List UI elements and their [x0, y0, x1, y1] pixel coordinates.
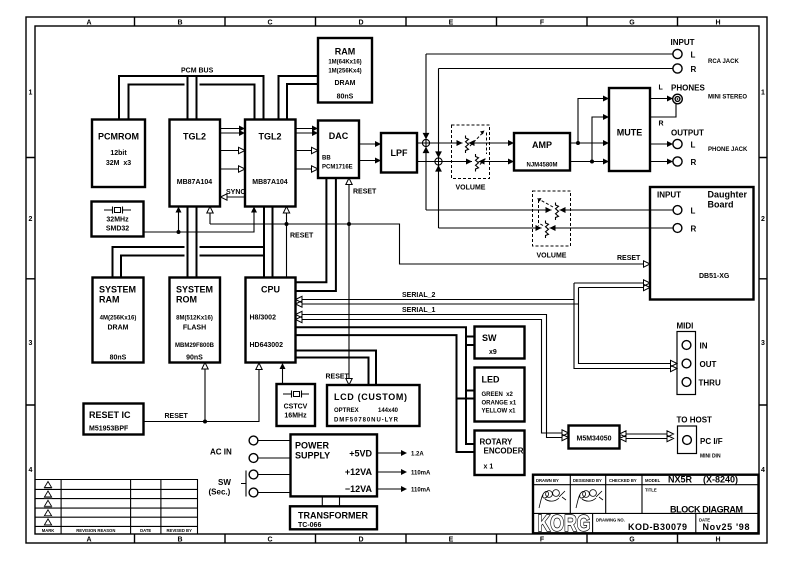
wire CPU to LCD [296, 351, 377, 386]
svg-text:R: R [659, 121, 664, 128]
svg-text:8M(512Kx16): 8M(512Kx16) [176, 316, 213, 322]
svg-text:L: L [659, 85, 664, 92]
svg-text:C: C [267, 537, 272, 544]
svg-text:DRAWING NO.: DRAWING NO. [596, 518, 625, 523]
Daughter Board DB51-XG [650, 187, 754, 300]
svg-text:TGL2: TGL2 [258, 132, 281, 142]
revision table [35, 480, 198, 535]
svg-text:C: C [267, 20, 272, 27]
reset net TGL2/DAC/LCD/DB [207, 178, 650, 385]
svg-text:RESET: RESET [326, 374, 350, 381]
svg-text:RESET: RESET [353, 189, 377, 196]
svg-text:FLASH: FLASH [183, 325, 206, 332]
svg-text:PCM1716E: PCM1716E [322, 165, 353, 171]
svg-text:+12VA: +12VA [345, 467, 373, 477]
svg-text:SYSTEM: SYSTEM [99, 285, 136, 295]
pot 2a [537, 198, 559, 226]
svg-text:ORANGE x1: ORANGE x1 [482, 401, 517, 407]
svg-text:90nS: 90nS [186, 354, 203, 361]
svg-text:YELLOW x1: YELLOW x1 [482, 409, 517, 415]
M5M34050 to PC I/F double arrow [620, 431, 674, 442]
svg-text:Board: Board [708, 200, 734, 210]
svg-text:H: H [715, 537, 720, 544]
title block [533, 474, 759, 536]
svg-text:2: 2 [761, 216, 765, 223]
svg-text:HD643002: HD643002 [250, 342, 284, 349]
svg-text:VOLUME: VOLUME [456, 185, 486, 192]
svg-text:R: R [691, 65, 697, 74]
svg-text:D: D [358, 537, 363, 544]
LCD (CUSTOM) [327, 385, 420, 426]
svg-text:DMF50780NU-LYR: DMF50780NU-LYR [334, 418, 399, 424]
svg-text:IN: IN [700, 342, 708, 351]
svg-text:M51953BPF: M51953BPF [89, 426, 129, 433]
TGL2#1 to TGL2#2 arrows [221, 126, 246, 173]
svg-text:DAC: DAC [329, 131, 349, 141]
svg-text:OUT: OUT [700, 360, 717, 369]
svg-text:MODEL: MODEL [645, 478, 661, 483]
svg-text:RAM: RAM [99, 295, 120, 305]
svg-text:DATE: DATE [140, 528, 151, 533]
pot 2b [539, 221, 549, 239]
svg-text:A: A [86, 537, 91, 544]
svg-text:MARK: MARK [42, 528, 55, 533]
LPF [381, 133, 417, 173]
power supply outputs [377, 450, 431, 494]
signature drawn by [539, 490, 603, 508]
svg-text:SERIAL_2: SERIAL_2 [402, 292, 436, 299]
PC I/F connector [677, 416, 723, 460]
svg-text:4: 4 [29, 467, 33, 474]
svg-text:DESIGNED BY: DESIGNED BY [573, 478, 602, 483]
svg-text:TITLE: TITLE [645, 488, 657, 493]
svg-text:(X-8240): (X-8240) [703, 474, 738, 484]
SYSTEM ROM [170, 278, 221, 363]
svg-text:GREEN x2: GREEN x2 [482, 392, 514, 398]
svg-text:NJM4580M: NJM4580M [526, 163, 557, 169]
wire TGL2#2 to CPU verticals [264, 207, 273, 278]
input RCA wires to nodes [426, 54, 673, 69]
wire CPU to DAC serial data [296, 178, 336, 291]
summing node L [422, 54, 429, 210]
signature designed by [576, 491, 585, 508]
SYNC back arrow [221, 189, 246, 200]
svg-text:(Sec.): (Sec.) [209, 488, 231, 497]
svg-text:B: B [177, 537, 182, 544]
svg-text:REVISED BY: REVISED BY [167, 528, 193, 533]
svg-text:POWER: POWER [295, 441, 330, 451]
svg-text:DRAM: DRAM [335, 80, 356, 87]
svg-text:CSTCV: CSTCV [284, 404, 308, 411]
MUTE to jacks [650, 96, 676, 165]
svg-text:PHONE JACK: PHONE JACK [708, 147, 748, 153]
svg-text:LED: LED [482, 375, 501, 385]
svg-text:E: E [449, 20, 454, 27]
svg-text:RESET IC: RESET IC [89, 410, 131, 420]
svg-text:B: B [177, 20, 182, 27]
svg-text:AMP: AMP [532, 140, 552, 150]
svg-text:12bit: 12bit [110, 150, 127, 157]
DAC to LPF arrows [359, 141, 381, 164]
KORG logo [538, 510, 591, 536]
svg-text:32M x3: 32M x3 [106, 160, 131, 167]
svg-text:L: L [691, 141, 696, 150]
svg-text:CHECKED BY: CHECKED BY [609, 478, 637, 483]
svg-text:SMD32: SMD32 [106, 226, 129, 233]
svg-text:x 1: x 1 [484, 464, 494, 471]
svg-text:PCM BUS: PCM BUS [181, 68, 214, 75]
svg-text:PCMROM: PCMROM [98, 132, 139, 142]
pot 1b [476, 154, 487, 172]
svg-text:ROTARY: ROTARY [480, 438, 514, 447]
svg-text:SW: SW [218, 478, 231, 487]
svg-text:−12VA: −12VA [345, 484, 373, 494]
POWER SUPPLY [291, 434, 378, 496]
svg-text:SYSTEM: SYSTEM [176, 285, 213, 295]
svg-text:SERIAL_1: SERIAL_1 [402, 307, 436, 314]
svg-text:DRAM: DRAM [108, 325, 129, 332]
svg-text:MUTE: MUTE [617, 128, 643, 138]
svg-text:LCD (CUSTOM): LCD (CUSTOM) [334, 392, 407, 402]
PCMROM U1 [92, 120, 145, 188]
svg-text:VOLUME: VOLUME [537, 253, 567, 260]
svg-text:L: L [691, 51, 696, 60]
svg-text:3: 3 [29, 340, 33, 347]
svg-text:DRAWN BY: DRAWN BY [536, 478, 559, 483]
svg-text:REVISION REASON: REVISION REASON [76, 528, 115, 533]
svg-text:CPU: CPU [261, 285, 280, 295]
svg-text:TGL2: TGL2 [183, 132, 206, 142]
TGL2#2 to DAC arrows [296, 126, 318, 173]
svg-text:MINI STEREO: MINI STEREO [708, 95, 747, 101]
svg-text:F: F [540, 537, 545, 544]
RAM (DRAM for TGL2) [318, 38, 372, 103]
SW x9 [475, 327, 525, 359]
svg-text:NX5R: NX5R [668, 474, 693, 484]
daughter board out wires through volume2 to nodes [426, 207, 673, 231]
32MHz clock net [144, 207, 258, 235]
PCM bus branch to TGL2#1 [188, 76, 197, 120]
svg-text:KORG: KORG [538, 510, 591, 536]
PCM bus inner line [129, 85, 255, 120]
svg-text:KOD-B30079: KOD-B30079 [628, 522, 687, 532]
summing node R [435, 69, 442, 229]
svg-text:TRANSFORMER: TRANSFORMER [298, 511, 368, 521]
svg-text:+5VD: +5VD [349, 448, 372, 458]
svg-text:A: A [86, 20, 91, 27]
reset IC net [144, 363, 263, 424]
PCM bus outer line [119, 76, 264, 120]
svg-text:G: G [629, 20, 635, 27]
MUTE [609, 88, 650, 171]
svg-text:MB87A104: MB87A104 [252, 179, 288, 186]
svg-text:SYNC: SYNC [226, 189, 245, 196]
svg-text:110mA: 110mA [411, 488, 431, 494]
svg-text:OUTPUT: OUTPUT [671, 129, 704, 138]
svg-text:TC-066: TC-066 [298, 522, 321, 529]
SYSTEM RAM [93, 278, 144, 363]
M5M34050 [569, 426, 620, 449]
INPUT RCA jacks [671, 38, 740, 74]
pot 1a [466, 131, 487, 155]
svg-text:MB87A104: MB87A104 [177, 179, 213, 186]
VOLUME box 2 [533, 191, 571, 260]
svg-text:R: R [691, 158, 697, 167]
svg-text:M5M34050: M5M34050 [576, 436, 611, 443]
OUTPUT phone jacks [671, 129, 748, 168]
svg-text:RESET: RESET [165, 413, 189, 420]
svg-text:E: E [449, 537, 454, 544]
MIDI connector [677, 322, 721, 395]
svg-text:THRU: THRU [699, 379, 721, 388]
svg-text:H: H [715, 20, 720, 27]
svg-text:LPF: LPF [391, 148, 409, 158]
AMP [514, 133, 570, 171]
CSTCV to CPU clock [280, 363, 286, 384]
svg-text:144x40: 144x40 [378, 408, 399, 414]
CPU address bus upper [113, 247, 265, 278]
svg-text:16MHz: 16MHz [284, 413, 307, 420]
DAC [318, 121, 359, 179]
svg-text:1: 1 [29, 90, 33, 97]
svg-text:2: 2 [29, 216, 33, 223]
svg-text:OPTREX: OPTREX [334, 408, 359, 414]
VOLUME box 1 [452, 125, 490, 192]
svg-text:F: F [540, 20, 545, 27]
svg-text:1.2A: 1.2A [411, 452, 424, 458]
PHONES jack mini stereo [659, 84, 748, 128]
svg-text:L: L [691, 207, 696, 216]
svg-text:PC I/F: PC I/F [700, 437, 723, 446]
bus stubs ROM / CPU / TGL2#2 [188, 207, 197, 278]
svg-text:RCA JACK: RCA JACK [708, 59, 739, 65]
svg-text:x9: x9 [489, 349, 497, 356]
svg-text:RESET: RESET [617, 255, 641, 262]
TGL2 #2 [245, 120, 296, 207]
svg-text:80nS: 80nS [110, 354, 127, 361]
svg-text:TO HOST: TO HOST [677, 416, 713, 425]
audio L line LPF to AMP [417, 140, 514, 165]
svg-text:MBM29F800B: MBM29F800B [175, 343, 215, 349]
wire CPU to LED/ROTARY line 2 [296, 335, 475, 452]
svg-text:MINI DIN: MINI DIN [700, 454, 721, 460]
svg-text:BLOCK DIAGRAM: BLOCK DIAGRAM [670, 505, 743, 515]
power supply to transformer [322, 496, 339, 506]
svg-text:110mA: 110mA [411, 471, 431, 477]
svg-text:ROM: ROM [176, 295, 197, 305]
svg-text:1M(256Kx4): 1M(256Kx4) [328, 69, 361, 75]
svg-text:SUPPLY: SUPPLY [295, 451, 330, 461]
AC IN connector circles [209, 436, 291, 497]
wire CPU to SW/LED/ROTARY line 1 [296, 327, 475, 444]
svg-text:ENCODER: ENCODER [484, 447, 524, 456]
svg-text:R: R [691, 225, 697, 234]
TGL2 #1 [170, 120, 221, 207]
svg-text:AC IN: AC IN [210, 448, 232, 457]
svg-text:H8/3002: H8/3002 [250, 315, 277, 322]
LED [475, 368, 525, 422]
RAM to TGL2#2 bus lines [279, 76, 319, 120]
svg-text:80nS: 80nS [337, 94, 354, 101]
32MHz crystal module SMD32 [92, 202, 144, 237]
ROTARY ENCODER [475, 431, 525, 476]
svg-text:PHONES: PHONES [671, 84, 705, 93]
TRANSFORMER TC-066 [290, 506, 377, 529]
svg-text:RAM: RAM [335, 47, 356, 57]
svg-text:32MHz: 32MHz [106, 217, 129, 224]
svg-text:Nov25 '98: Nov25 '98 [703, 522, 750, 532]
svg-text:D: D [358, 20, 363, 27]
svg-text:DB51-XG: DB51-XG [699, 273, 730, 280]
svg-text:4: 4 [761, 467, 765, 474]
svg-text:3: 3 [761, 340, 765, 347]
svg-text:G: G [629, 537, 635, 544]
CSTCV 16MHz resonator [277, 384, 316, 426]
svg-text:MIDI: MIDI [677, 322, 694, 331]
svg-text:RESET: RESET [290, 233, 314, 240]
svg-text:1M(64Kx16): 1M(64Kx16) [328, 60, 361, 66]
svg-text:4M(256Kx16): 4M(256Kx16) [100, 316, 137, 322]
SERIAL_2 net to DB and MIDI [296, 280, 678, 372]
SERIAL_1 net to M5M34050 [296, 307, 569, 441]
svg-text:1: 1 [761, 90, 765, 97]
svg-text:INPUT: INPUT [657, 191, 681, 200]
svg-text:INPUT: INPUT [671, 38, 695, 47]
svg-text:Daughter: Daughter [708, 190, 748, 200]
svg-text:SW: SW [482, 333, 497, 343]
CPU [246, 278, 296, 363]
svg-text:BB: BB [322, 156, 331, 162]
AMP to MUTE wires [570, 96, 609, 165]
RESET IC [84, 404, 144, 435]
